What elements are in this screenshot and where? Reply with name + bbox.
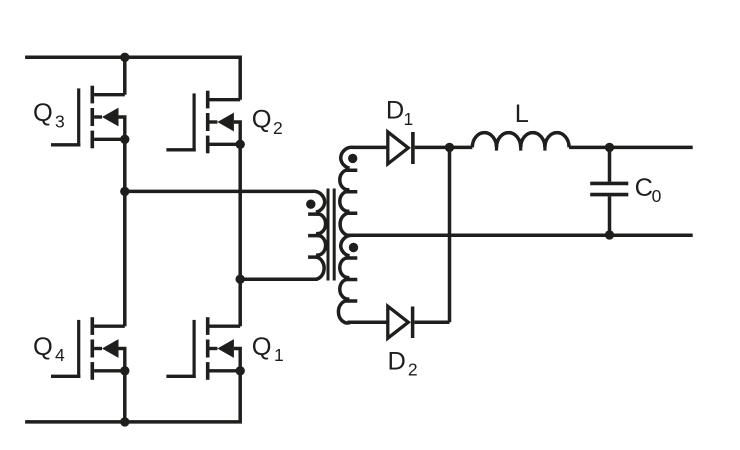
label Q1 <box>252 333 284 365</box>
junction left midpoint / primary top <box>120 187 129 196</box>
wire right bridge midpoint <box>238 144 242 326</box>
svg-text:L: L <box>515 100 529 128</box>
label Q3 <box>33 99 65 132</box>
label Q2 <box>252 106 283 139</box>
wire rectifier vertical <box>448 147 452 322</box>
svg-text:Q: Q <box>33 99 53 127</box>
label C0 <box>635 174 662 206</box>
label Q4 <box>33 333 65 365</box>
inductor L <box>472 133 569 148</box>
diode D2 <box>388 306 413 338</box>
capacitor C0 <box>590 147 628 235</box>
svg-text:4: 4 <box>55 345 65 365</box>
wire left bridge midpoint <box>123 139 127 326</box>
wire D2 cathode <box>414 320 449 324</box>
transformer core <box>328 189 334 281</box>
svg-text:Q: Q <box>33 333 53 361</box>
wire inductor to output <box>569 146 693 150</box>
svg-text:C: C <box>635 174 653 202</box>
svg-text:0: 0 <box>652 186 662 206</box>
junction top rail / Q3 drain <box>120 53 129 62</box>
diode D1 <box>388 132 413 164</box>
wire bottom input rail <box>25 371 240 422</box>
junction rectifier output <box>445 143 454 152</box>
svg-text:1: 1 <box>404 109 414 129</box>
inductor pinch stems <box>497 145 545 151</box>
svg-text:3: 3 <box>55 112 65 132</box>
svg-text:2: 2 <box>408 360 418 380</box>
transformer T1 secondary top winding <box>340 147 388 235</box>
transformer T1 primary winding <box>125 191 326 279</box>
wire top input rail <box>25 57 240 99</box>
transistor Q2 <box>166 91 245 154</box>
junction output bottom / C0 <box>605 230 614 239</box>
svg-text:2: 2 <box>273 118 283 138</box>
secondary bottom polarity dot <box>349 243 358 252</box>
transistor Q1 <box>166 317 245 380</box>
junction output top / C0 <box>605 143 614 152</box>
svg-text:D: D <box>388 348 406 376</box>
label D2 <box>388 348 418 380</box>
wire center tap to output bottom rail <box>348 233 693 237</box>
svg-text:1: 1 <box>274 345 284 365</box>
wire Q4 source <box>123 371 127 422</box>
label D1 <box>386 96 413 128</box>
svg-text:Q: Q <box>252 333 272 361</box>
svg-text:Q: Q <box>252 106 272 134</box>
svg-text:D: D <box>386 96 404 124</box>
junction right midpoint / primary bottom <box>236 275 245 284</box>
junction bottom rail / Q4 source <box>120 417 129 426</box>
wire D1 cathode to inductor <box>415 146 473 150</box>
transistor Q4 <box>51 317 130 380</box>
wire Q3 drain <box>123 57 127 94</box>
primary polarity dot <box>306 200 315 209</box>
transistor Q3 <box>51 86 130 149</box>
transformer T1 secondary bottom winding <box>338 235 387 323</box>
secondary top polarity dot <box>348 154 357 163</box>
